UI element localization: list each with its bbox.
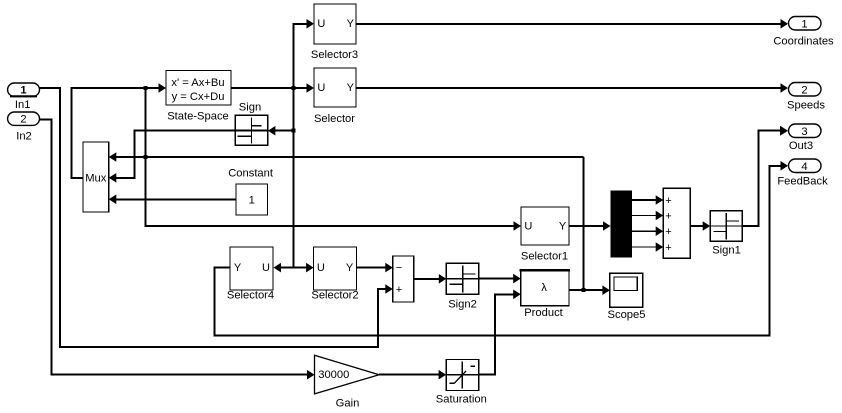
svg-text:x' = Ax+Bu: x' = Ax+Bu	[171, 77, 224, 89]
svg-text:Mux: Mux	[85, 173, 107, 185]
svg-text:Y: Y	[234, 262, 242, 274]
svg-text:Constant: Constant	[228, 168, 274, 180]
svg-text:Selector3: Selector3	[311, 49, 358, 61]
svg-text:+: +	[665, 210, 671, 222]
svg-text:Y: Y	[347, 18, 355, 30]
svg-text:−: −	[396, 262, 402, 274]
svg-text:1: 1	[801, 18, 807, 30]
svg-text:U: U	[524, 220, 532, 232]
svg-text:Gain: Gain	[336, 398, 360, 410]
svg-text:In2: In2	[16, 131, 32, 143]
svg-text:Y: Y	[559, 220, 567, 232]
svg-text:Sign1: Sign1	[712, 245, 741, 257]
svg-text:+: +	[396, 284, 402, 296]
svg-text:1: 1	[249, 195, 255, 207]
svg-text:+: +	[665, 242, 671, 254]
svg-text:4: 4	[801, 161, 807, 173]
svg-text:Out3: Out3	[789, 140, 813, 152]
svg-text:30000: 30000	[318, 369, 349, 381]
svg-text:Coordinates: Coordinates	[773, 36, 834, 48]
svg-text:2: 2	[801, 84, 807, 96]
svg-text:U: U	[317, 18, 325, 30]
svg-text:1: 1	[20, 85, 26, 97]
svg-text:λ: λ	[541, 282, 547, 294]
svg-text:Product: Product	[524, 307, 563, 319]
svg-text:Y: Y	[346, 262, 354, 274]
svg-text:Selector4: Selector4	[227, 290, 274, 302]
svg-text:3: 3	[801, 126, 807, 138]
svg-text:Selector: Selector	[314, 113, 355, 125]
svg-text:Y: Y	[347, 82, 355, 94]
svg-text:Selector2: Selector2	[311, 290, 358, 302]
svg-text:Selector1: Selector1	[521, 251, 568, 263]
svg-text:Scope5: Scope5	[608, 309, 646, 321]
svg-text:2: 2	[20, 114, 26, 126]
svg-text:In1: In1	[15, 99, 31, 111]
svg-text:U: U	[317, 82, 325, 94]
svg-text:FeedBack: FeedBack	[777, 176, 828, 188]
svg-text:State-Space: State-Space	[167, 111, 229, 123]
svg-text:Sign2: Sign2	[448, 299, 477, 311]
svg-text:Saturation: Saturation	[436, 394, 487, 406]
svg-text:Speeds: Speeds	[787, 100, 825, 112]
svg-text:+: +	[665, 195, 671, 207]
svg-text:+: +	[665, 226, 671, 238]
svg-text:Sign: Sign	[239, 102, 261, 114]
svg-text:U: U	[262, 262, 270, 274]
svg-text:y = Cx+Du: y = Cx+Du	[172, 91, 225, 103]
svg-text:U: U	[317, 262, 325, 274]
